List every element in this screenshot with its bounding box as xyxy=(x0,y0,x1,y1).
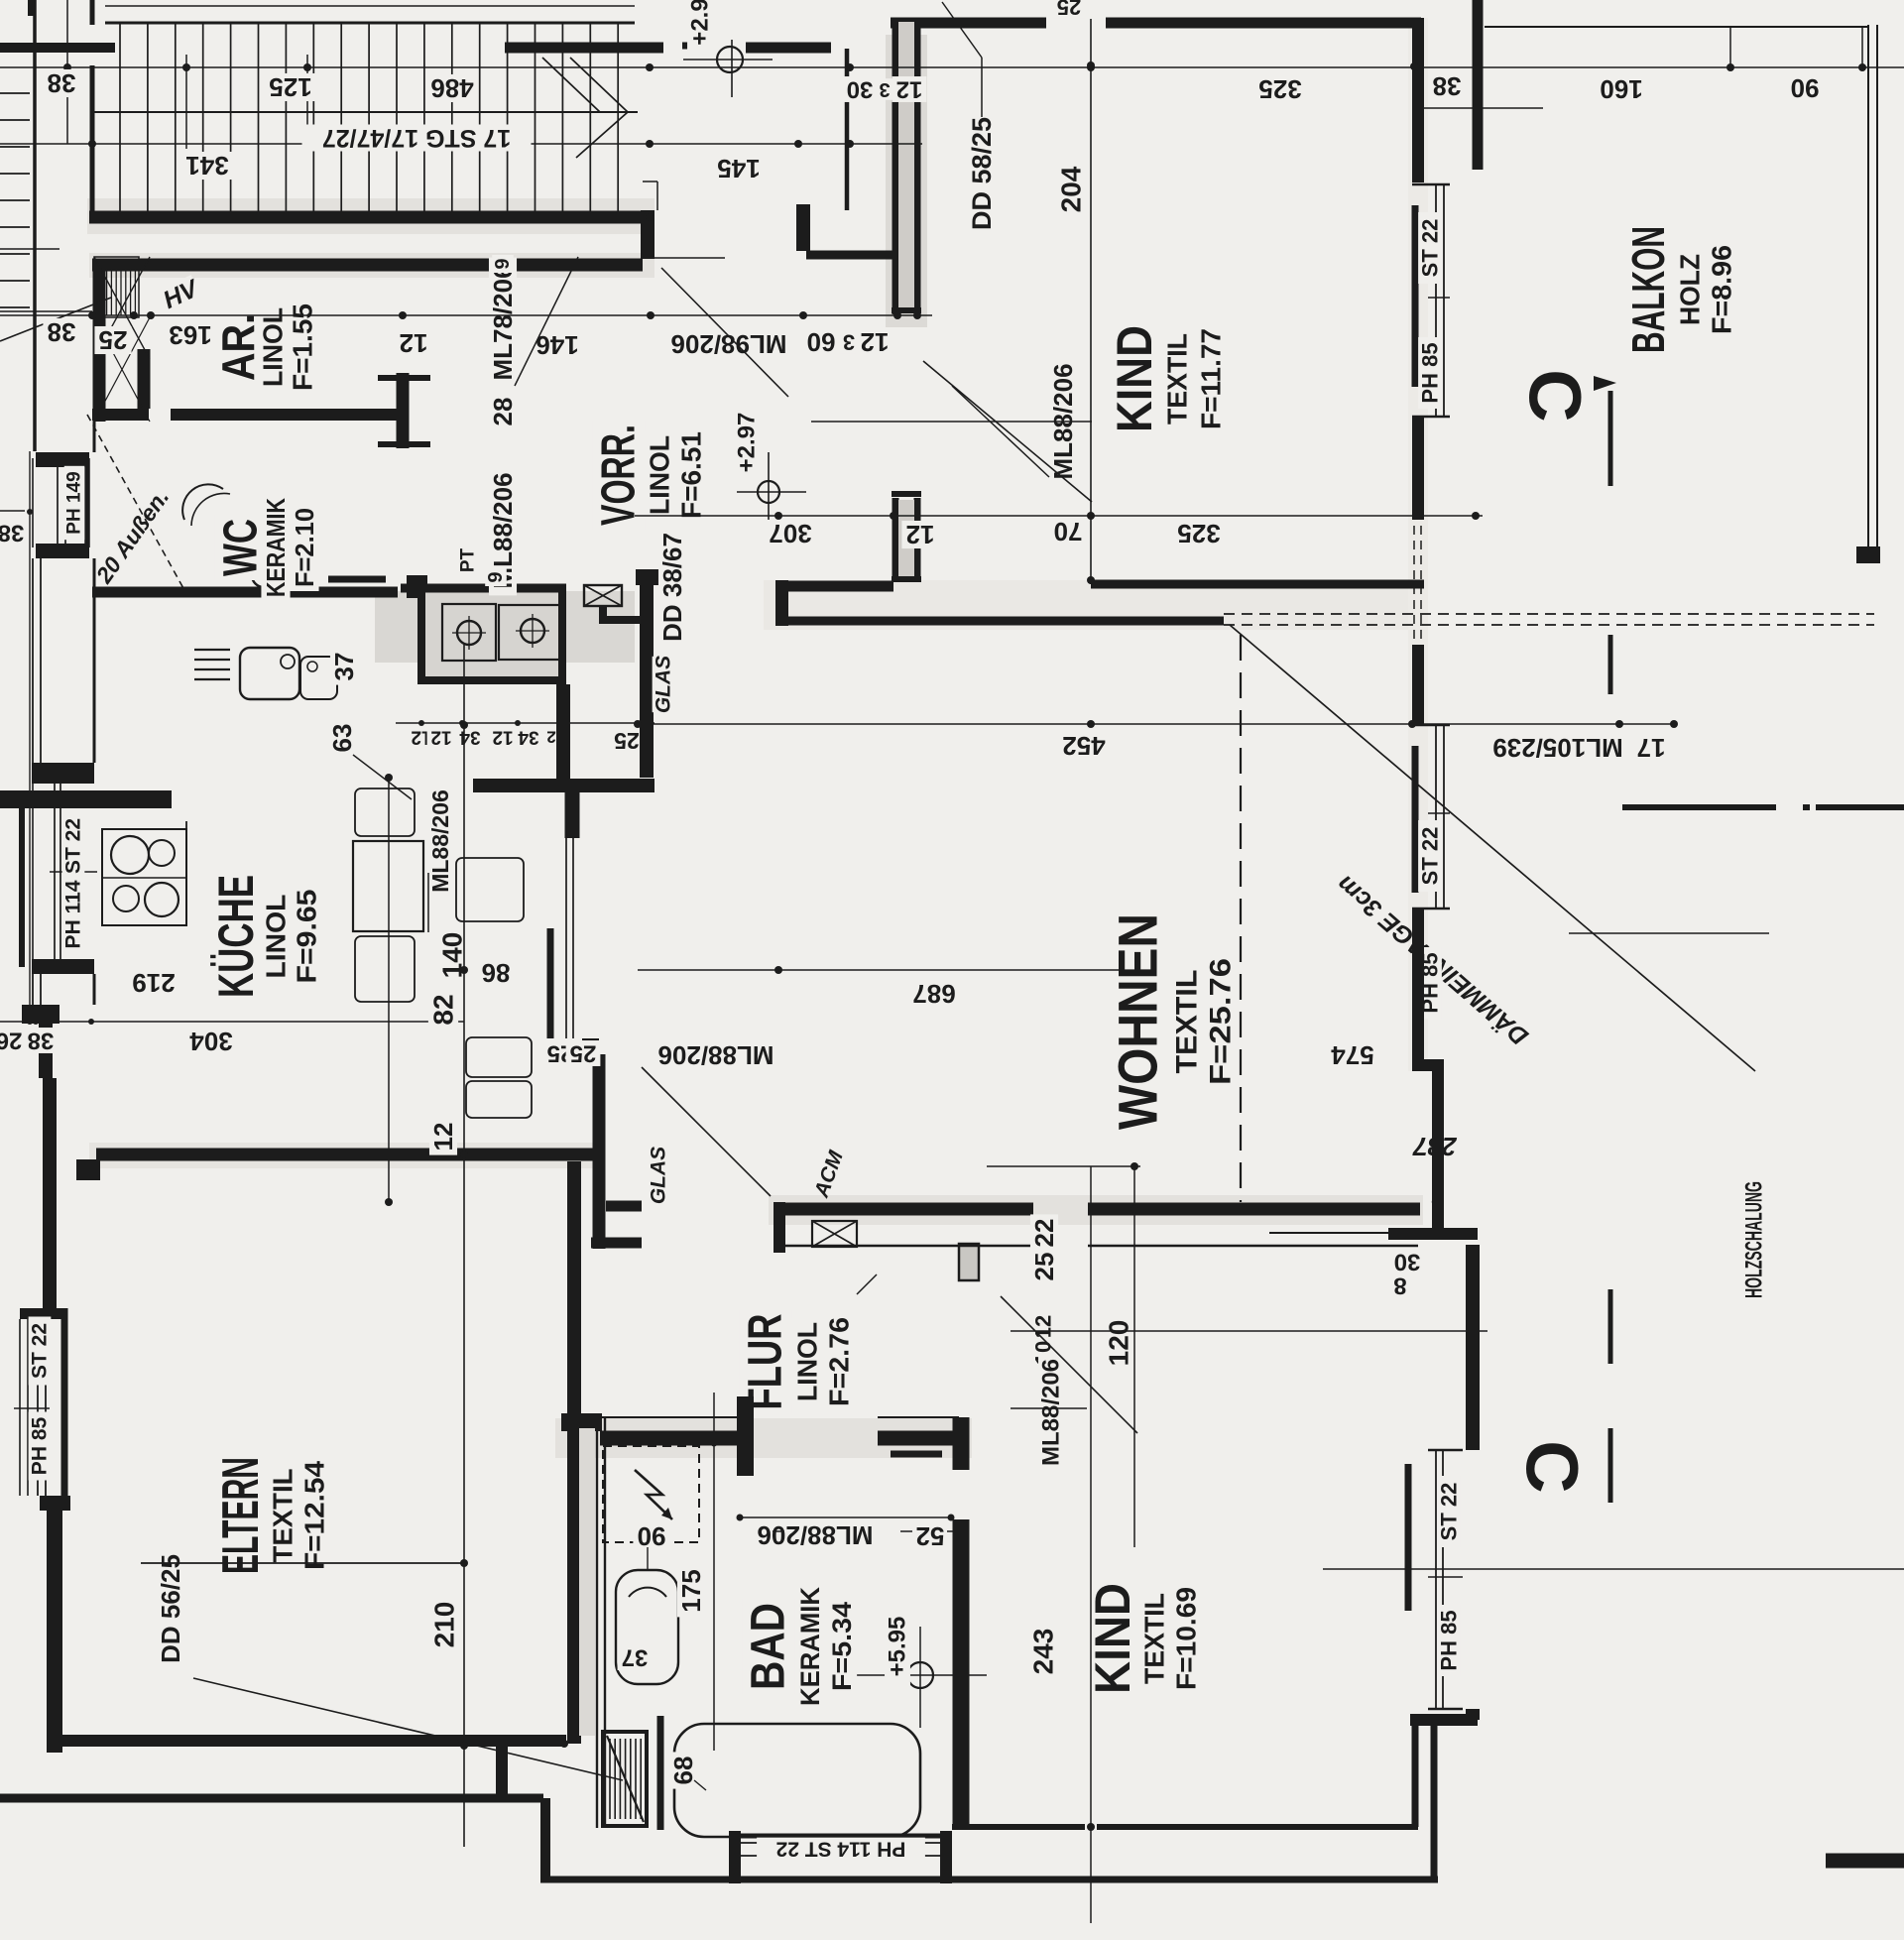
svg-text:DD 38/67: DD 38/67 xyxy=(657,533,687,642)
svg-text:26: 26 xyxy=(0,1028,22,1054)
svg-text:307: 307 xyxy=(769,519,811,548)
svg-text:38: 38 xyxy=(0,520,24,546)
svg-text:AR.: AR. xyxy=(212,313,264,381)
svg-text:GLAS: GLAS xyxy=(653,656,675,713)
svg-text:KERAMIK: KERAMIK xyxy=(795,1587,825,1706)
svg-text:86: 86 xyxy=(482,958,511,988)
svg-text:34: 34 xyxy=(459,727,481,748)
svg-text:LINOL: LINOL xyxy=(792,1322,823,1401)
svg-text:+2.9: +2.9 xyxy=(687,0,714,46)
svg-text:PH 114: PH 114 xyxy=(62,880,85,948)
svg-text:12: 12 xyxy=(492,727,513,748)
svg-text:PT: PT xyxy=(458,547,479,572)
svg-text:LINOL: LINOL xyxy=(258,307,289,387)
svg-text:204: 204 xyxy=(1056,166,1087,212)
svg-text:37: 37 xyxy=(329,653,359,681)
svg-text:38: 38 xyxy=(48,317,76,347)
svg-text:C: C xyxy=(1514,369,1597,422)
svg-text:38: 38 xyxy=(48,68,76,98)
svg-text:12: 12 xyxy=(428,1123,458,1152)
svg-text:22: 22 xyxy=(1029,1219,1059,1248)
svg-text:304: 304 xyxy=(189,1027,233,1056)
svg-text:ML88/206: ML88/206 xyxy=(757,1520,873,1550)
svg-text:146: 146 xyxy=(535,330,578,360)
svg-text:8: 8 xyxy=(1393,1273,1406,1299)
svg-text:25: 25 xyxy=(1057,0,1081,20)
svg-text:38: 38 xyxy=(28,1028,55,1054)
svg-text:219: 219 xyxy=(132,968,175,998)
svg-text:90: 90 xyxy=(638,1521,666,1551)
svg-text:486: 486 xyxy=(430,73,473,103)
svg-text:LINOL: LINOL xyxy=(645,435,675,515)
svg-text:PH 85: PH 85 xyxy=(1418,342,1443,403)
svg-text:+5.95: +5.95 xyxy=(885,1617,911,1677)
svg-text:KIND: KIND xyxy=(1107,325,1162,432)
svg-text:HOLZSCHALUNG: HOLZSCHALUNG xyxy=(1741,1181,1768,1298)
svg-text:PH 114 ST 22: PH 114 ST 22 xyxy=(776,1838,906,1861)
svg-text:F=9.65: F=9.65 xyxy=(292,890,322,984)
svg-text:ML105/239: ML105/239 xyxy=(1492,733,1623,763)
svg-text:ML88/206: ML88/206 xyxy=(657,1040,773,1070)
svg-text:30: 30 xyxy=(847,76,874,103)
svg-text:C: C xyxy=(1511,1440,1594,1493)
svg-text:163: 163 xyxy=(169,320,211,350)
svg-text:KERAMIK: KERAMIK xyxy=(261,498,291,597)
svg-text:TEXTIL: TEXTIL xyxy=(1162,333,1193,424)
svg-text:F=2.76: F=2.76 xyxy=(824,1317,855,1406)
svg-text:175: 175 xyxy=(676,1569,706,1612)
svg-text:28: 28 xyxy=(488,398,518,426)
svg-text:30: 30 xyxy=(1394,1249,1421,1275)
svg-text:F=12.54: F=12.54 xyxy=(299,1461,330,1570)
svg-text:3: 3 xyxy=(879,78,890,100)
svg-text:F=25.76: F=25.76 xyxy=(1205,958,1238,1085)
svg-text:3: 3 xyxy=(843,330,855,355)
svg-text:BALKON: BALKON xyxy=(1622,226,1674,353)
svg-text:2: 2 xyxy=(546,728,555,747)
svg-text:F=6.51: F=6.51 xyxy=(676,431,707,519)
svg-text:37: 37 xyxy=(622,1644,649,1671)
svg-text:325: 325 xyxy=(1258,74,1301,104)
svg-text:574: 574 xyxy=(1331,1040,1374,1070)
svg-text:60: 60 xyxy=(807,327,836,357)
svg-text:38: 38 xyxy=(1433,71,1462,101)
svg-text:GLAS: GLAS xyxy=(648,1147,670,1204)
svg-text:ELTERN: ELTERN xyxy=(212,1457,270,1574)
svg-text:90: 90 xyxy=(1791,73,1820,103)
svg-text:25: 25 xyxy=(1029,1253,1059,1281)
svg-text:68: 68 xyxy=(668,1757,698,1785)
svg-text:WOHNEN: WOHNEN xyxy=(1107,913,1169,1130)
svg-text:F=8.96: F=8.96 xyxy=(1707,245,1737,334)
svg-text:ST 22: ST 22 xyxy=(1418,827,1443,886)
svg-text:TEXTIL: TEXTIL xyxy=(1171,970,1204,1074)
svg-text:PH 85: PH 85 xyxy=(1437,1610,1462,1670)
svg-text:160: 160 xyxy=(1600,74,1642,104)
svg-text:FLUR: FLUR xyxy=(740,1314,792,1410)
svg-text:TEXTIL: TEXTIL xyxy=(1139,1593,1170,1684)
svg-text:ML78/206: ML78/206 xyxy=(488,264,518,380)
svg-text:70: 70 xyxy=(1054,517,1083,546)
svg-text:63: 63 xyxy=(327,724,357,753)
svg-text:ST 22: ST 22 xyxy=(1437,1483,1462,1541)
svg-text:HOLZ: HOLZ xyxy=(1675,254,1706,325)
svg-text:120: 120 xyxy=(1104,1320,1134,1367)
svg-text:17 STG 17/47/27: 17 STG 17/47/27 xyxy=(322,124,511,152)
svg-text:341: 341 xyxy=(185,151,228,181)
svg-text:25: 25 xyxy=(570,1040,597,1067)
svg-text:12: 12 xyxy=(430,727,451,748)
svg-text:243: 243 xyxy=(1028,1629,1059,1675)
svg-text:LINOL: LINOL xyxy=(261,895,292,979)
svg-text:12: 12 xyxy=(906,520,935,549)
svg-text:F=11.77: F=11.77 xyxy=(1196,328,1227,429)
svg-text:210: 210 xyxy=(429,1602,460,1648)
svg-text:VORR.: VORR. xyxy=(593,424,646,526)
svg-text:687: 687 xyxy=(912,979,955,1009)
svg-text:12: 12 xyxy=(861,327,890,357)
svg-text:12: 12 xyxy=(400,328,428,358)
svg-text:325: 325 xyxy=(1177,519,1220,548)
svg-text:ML88/206: ML88/206 xyxy=(427,789,453,893)
svg-text:12: 12 xyxy=(896,76,923,103)
svg-text:17: 17 xyxy=(1637,733,1666,763)
svg-text:ML88/206: ML88/206 xyxy=(1038,1359,1065,1466)
svg-text:125: 125 xyxy=(269,72,311,102)
svg-text:DD 56/25: DD 56/25 xyxy=(156,1554,185,1663)
svg-text:ST 22: ST 22 xyxy=(29,1323,52,1379)
svg-text:PH 85: PH 85 xyxy=(29,1417,52,1476)
svg-text:12: 12 xyxy=(1031,1315,1056,1339)
svg-text:F=2.10: F=2.10 xyxy=(290,508,319,587)
svg-text:34: 34 xyxy=(518,727,539,748)
svg-text:9: 9 xyxy=(492,258,514,269)
svg-text:F=10.69: F=10.69 xyxy=(1171,1587,1202,1690)
svg-text:9: 9 xyxy=(485,571,507,582)
svg-text:BAD: BAD xyxy=(743,1603,795,1690)
svg-text:TEXTIL: TEXTIL xyxy=(268,1469,298,1563)
svg-text:ST 22: ST 22 xyxy=(62,818,85,874)
svg-text:DD 58/25: DD 58/25 xyxy=(967,117,997,230)
svg-text:F=1.55: F=1.55 xyxy=(288,303,318,391)
svg-text:ML98/206: ML98/206 xyxy=(670,329,786,359)
svg-text:F=5.34: F=5.34 xyxy=(827,1602,857,1691)
svg-text:145: 145 xyxy=(717,154,760,183)
svg-text:+2.97: +2.97 xyxy=(734,413,761,473)
svg-text:25: 25 xyxy=(99,325,128,355)
svg-text:KIND: KIND xyxy=(1085,1583,1140,1694)
svg-text:25: 25 xyxy=(614,728,640,754)
svg-text:KÜCHE: KÜCHE xyxy=(208,875,264,998)
svg-text:ST 22: ST 22 xyxy=(1418,219,1443,278)
svg-text:52: 52 xyxy=(916,1521,945,1551)
svg-text:452: 452 xyxy=(1062,731,1105,761)
svg-text:82: 82 xyxy=(428,994,459,1025)
svg-text:PH 149: PH 149 xyxy=(64,471,85,534)
svg-text:WC: WC xyxy=(215,519,268,576)
